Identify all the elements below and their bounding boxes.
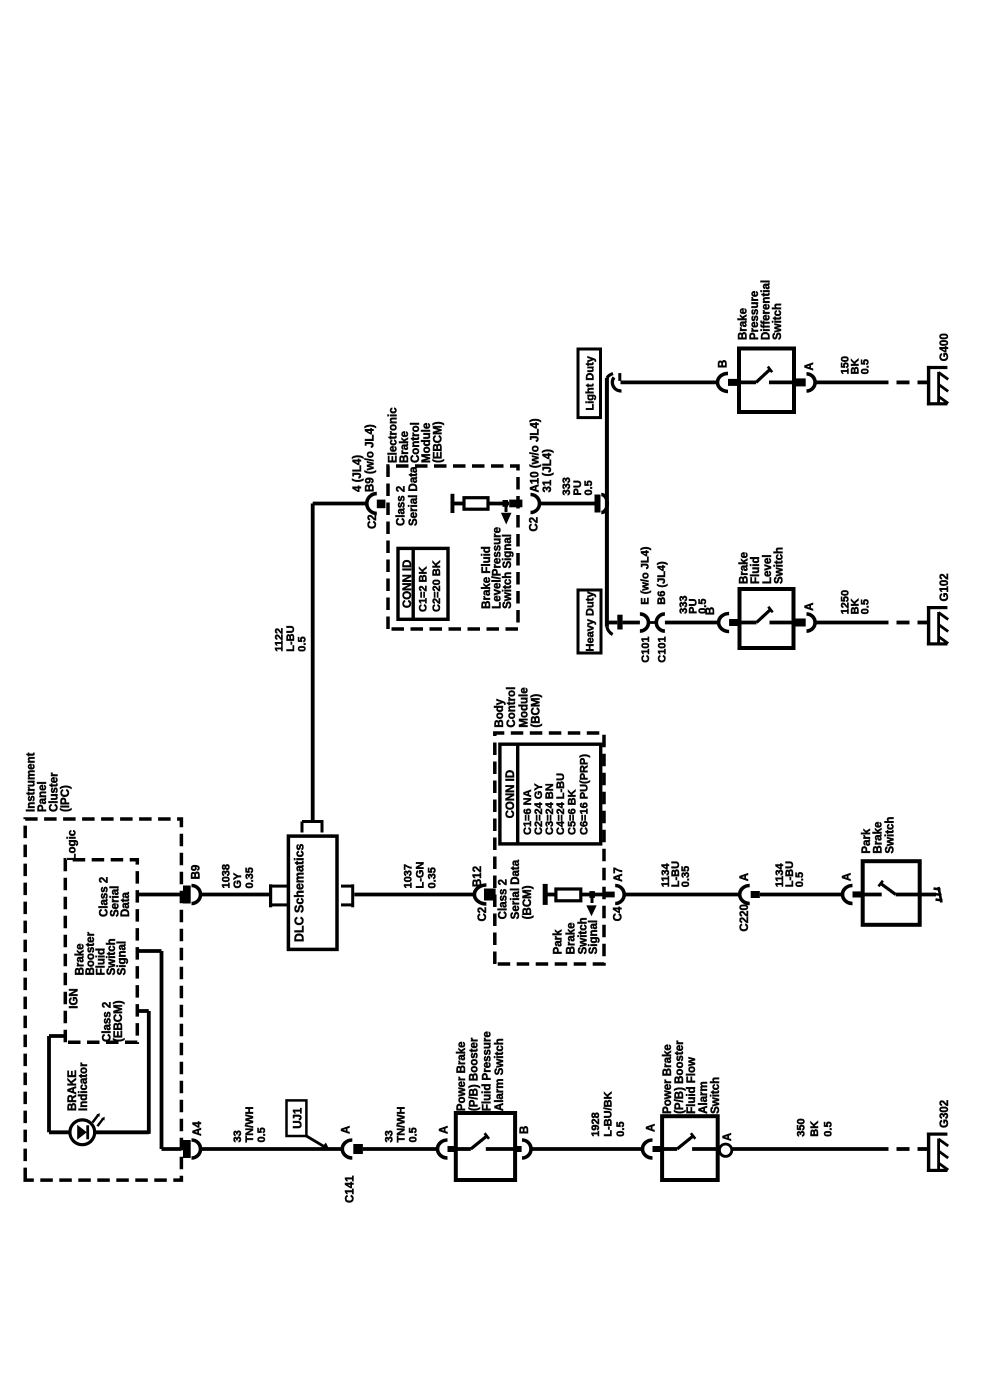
svg-text:Signal: Signal [117, 941, 129, 976]
svg-text:BK: BK [809, 1121, 821, 1137]
svg-text:TN/WH: TN/WH [244, 1106, 256, 1142]
svg-text:B: B [519, 1126, 531, 1134]
svg-text:A: A [439, 1126, 451, 1134]
svg-text:Fluid: Fluid [750, 557, 762, 584]
svg-text:C101: C101 [657, 636, 669, 662]
svg-text:Fluid Pressure: Fluid Pressure [481, 1031, 493, 1111]
svg-text:Switch: Switch [772, 303, 784, 340]
svg-text:A: A [722, 1133, 734, 1141]
svg-text:Level: Level [762, 555, 774, 584]
svg-text:G400: G400 [939, 333, 951, 361]
svg-text:Electronic: Electronic [388, 407, 400, 463]
svg-text:A: A [646, 1124, 658, 1132]
svg-text:1038: 1038 [221, 864, 233, 888]
svg-text:C101: C101 [640, 636, 652, 662]
svg-text:0.5: 0.5 [408, 1127, 420, 1142]
svg-text:CONN ID: CONN ID [505, 770, 517, 819]
svg-text:A: A [341, 1126, 353, 1134]
svg-text:L-GN: L-GN [415, 862, 427, 889]
svg-text:Power Brake: Power Brake [662, 1044, 674, 1114]
svg-text:Brake: Brake [872, 822, 884, 854]
svg-text:Switch: Switch [710, 1077, 722, 1114]
svg-text:B: B [705, 607, 717, 615]
svg-text:B: B [718, 360, 730, 368]
svg-text:L-BU: L-BU [285, 625, 297, 651]
svg-text:(EBCM): (EBCM) [432, 421, 444, 463]
svg-text:Brake: Brake [738, 552, 750, 584]
svg-text:350: 350 [795, 1118, 807, 1136]
svg-text:Alarm Switch: Alarm Switch [494, 1038, 506, 1111]
svg-text:Park: Park [861, 828, 873, 854]
svg-text:0.5: 0.5 [860, 359, 872, 374]
svg-text:A: A [739, 873, 751, 881]
svg-text:IGN: IGN [68, 988, 80, 1008]
svg-text:0.5: 0.5 [794, 872, 806, 887]
svg-text:(P/B) Booster: (P/B) Booster [469, 1037, 481, 1111]
svg-text:GY: GY [232, 872, 244, 889]
svg-text:Serial Data: Serial Data [510, 859, 522, 919]
svg-text:TN/WH: TN/WH [396, 1106, 408, 1142]
svg-text:Alarm: Alarm [698, 1081, 710, 1114]
svg-text:C5=6 BK: C5=6 BK [566, 789, 578, 835]
svg-text:PU: PU [572, 480, 584, 495]
svg-text:DLC Schematics: DLC Schematics [293, 843, 307, 942]
svg-text:A4: A4 [192, 1121, 204, 1136]
svg-text:L-BU/BK: L-BU/BK [603, 1091, 615, 1136]
svg-text:Power Brake: Power Brake [456, 1041, 468, 1111]
svg-text:1037: 1037 [403, 864, 415, 888]
svg-text:C220: C220 [739, 904, 751, 932]
svg-text:CONN ID: CONN ID [402, 560, 414, 609]
svg-text:C6=16 PU(PRP): C6=16 PU(PRP) [578, 754, 590, 835]
svg-text:C2: C2 [477, 907, 489, 922]
svg-text:0.5: 0.5 [296, 636, 308, 651]
svg-text:Light Duty: Light Duty [585, 355, 597, 410]
svg-text:Class 2: Class 2 [396, 486, 408, 526]
svg-text:1122: 1122 [274, 628, 286, 652]
svg-text:0.5: 0.5 [615, 1121, 627, 1136]
svg-text:G302: G302 [939, 1100, 951, 1128]
svg-text:Signal: Signal [588, 920, 600, 955]
svg-text:0.35: 0.35 [680, 866, 692, 887]
svg-text:Class 2: Class 2 [498, 879, 510, 919]
svg-text:Class 2: Class 2 [102, 1002, 114, 1042]
svg-text:Fluid Flow: Fluid Flow [686, 1057, 698, 1114]
svg-text:Brake: Brake [399, 431, 411, 463]
svg-text:0.5: 0.5 [860, 599, 872, 614]
svg-text:A: A [804, 603, 816, 611]
svg-text:A10 (w/o JL4): A10 (w/o JL4) [530, 418, 542, 492]
svg-text:Data: Data [120, 891, 132, 917]
svg-text:33: 33 [232, 1130, 244, 1142]
svg-text:(BCM): (BCM) [522, 885, 534, 919]
svg-text:0.5: 0.5 [256, 1127, 268, 1142]
svg-text:G102: G102 [939, 573, 951, 601]
svg-text:C4: C4 [613, 906, 625, 921]
svg-text:Park: Park [552, 929, 564, 955]
svg-text:C1=2 BK: C1=2 BK [418, 566, 430, 612]
svg-text:Module: Module [421, 423, 433, 463]
svg-text:31 (JL4): 31 (JL4) [542, 449, 554, 493]
svg-text:B9 (w/o JL4): B9 (w/o JL4) [364, 424, 376, 492]
svg-text:Brake: Brake [566, 922, 578, 954]
svg-text:0.5: 0.5 [583, 480, 595, 495]
svg-text:Switch: Switch [885, 817, 897, 854]
svg-text:1928: 1928 [590, 1112, 602, 1136]
svg-text:33: 33 [384, 1130, 396, 1142]
svg-text:(IPC): (IPC) [60, 785, 72, 812]
svg-text:0.5: 0.5 [823, 1121, 835, 1136]
svg-text:A: A [804, 362, 816, 370]
svg-text:Pressure: Pressure [749, 291, 761, 340]
svg-text:C2: C2 [367, 514, 379, 529]
svg-text:Body: Body [494, 698, 506, 727]
svg-text:Module: Module [518, 687, 530, 727]
svg-text:C141: C141 [345, 1175, 357, 1203]
svg-text:B9: B9 [191, 865, 203, 880]
svg-text:C2=20 BK: C2=20 BK [431, 560, 443, 612]
svg-text:Heavy Duty: Heavy Duty [585, 591, 597, 652]
svg-text:C2: C2 [529, 517, 541, 532]
svg-text:Logic: Logic [67, 829, 79, 860]
svg-text:Control: Control [410, 422, 422, 463]
svg-text:B6 (JL4): B6 (JL4) [656, 561, 668, 605]
svg-text:A: A [842, 873, 854, 881]
svg-text:(P/B) Booster: (P/B) Booster [674, 1040, 686, 1114]
svg-text:(BCM): (BCM) [531, 694, 543, 728]
svg-text:Switch Signal: Switch Signal [502, 534, 514, 609]
svg-text:4 (JL4): 4 (JL4) [352, 455, 364, 492]
svg-text:Cluster: Cluster [49, 772, 61, 812]
svg-text:0.35: 0.35 [427, 867, 439, 888]
svg-text:E (w/o JL4): E (w/o JL4) [640, 546, 652, 604]
svg-text:Differential: Differential [761, 280, 773, 340]
svg-text:UJ1: UJ1 [292, 1107, 304, 1129]
svg-text:Indicator: Indicator [78, 1062, 90, 1111]
svg-text:A7: A7 [613, 867, 625, 882]
svg-text:Panel: Panel [37, 781, 49, 812]
svg-text:(EBCM): (EBCM) [113, 1000, 125, 1042]
svg-text:Instrument: Instrument [26, 752, 38, 812]
svg-text:0.35: 0.35 [244, 867, 256, 888]
svg-text:Serial Data: Serial Data [408, 466, 420, 526]
svg-text:Control: Control [506, 687, 518, 728]
svg-text:Switch: Switch [774, 547, 786, 584]
svg-text:Brake: Brake [737, 308, 749, 340]
